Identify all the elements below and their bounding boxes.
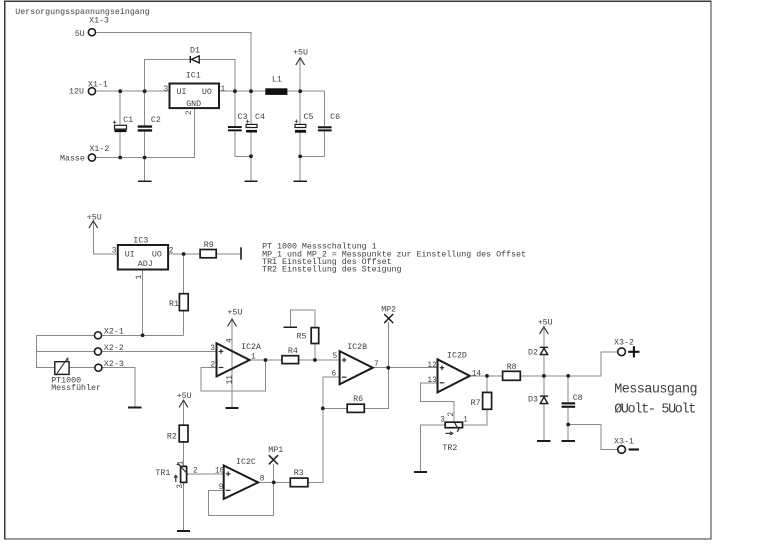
svg-text:R3: R3	[294, 469, 304, 478]
svg-text:1: 1	[251, 353, 256, 361]
svg-text:2: 2	[193, 468, 198, 476]
svg-text:C5: C5	[304, 113, 314, 122]
svg-text:C6: C6	[330, 113, 340, 122]
svg-text:Messausgang: Messausgang	[614, 382, 697, 397]
svg-text:2: 2	[169, 247, 174, 255]
svg-text:ØUolt- 5Uolt: ØUolt- 5Uolt	[614, 403, 695, 418]
svg-text:UI: UI	[177, 88, 187, 97]
svg-text:IC2D: IC2D	[447, 351, 467, 360]
svg-text:3: 3	[164, 86, 169, 94]
svg-text:C1: C1	[123, 116, 133, 125]
svg-text:7: 7	[374, 361, 379, 369]
svg-text:+5U: +5U	[87, 213, 102, 222]
svg-text:C4: C4	[255, 113, 265, 122]
svg-text:C8: C8	[573, 394, 583, 403]
svg-text:TR1: TR1	[155, 469, 170, 478]
svg-text:2: 2	[448, 412, 456, 417]
svg-text:R6: R6	[353, 395, 363, 404]
svg-text:11: 11	[227, 375, 235, 385]
svg-text:UO: UO	[202, 88, 212, 97]
svg-text:X3-1: X3-1	[614, 438, 634, 447]
svg-text:+5U: +5U	[293, 49, 308, 58]
svg-text:13: 13	[427, 377, 437, 385]
svg-text:R2: R2	[167, 432, 177, 441]
svg-text:Messfühler: Messfühler	[51, 383, 101, 393]
svg-text:X2-1: X2-1	[104, 328, 124, 337]
svg-text:5U: 5U	[75, 30, 85, 39]
svg-text:R8: R8	[507, 363, 517, 372]
svg-text:Uersorgungsspannungseingang: Uersorgungsspannungseingang	[15, 7, 149, 17]
svg-text:GND: GND	[186, 100, 201, 109]
svg-text:X2-2: X2-2	[104, 344, 124, 353]
svg-text:3: 3	[112, 247, 117, 255]
svg-text:X3-2: X3-2	[614, 338, 634, 347]
svg-text:R9: R9	[204, 241, 214, 250]
svg-text:12U: 12U	[69, 87, 84, 96]
svg-text:+5U: +5U	[177, 392, 192, 401]
svg-text:2: 2	[186, 110, 194, 115]
svg-text:IC3: IC3	[133, 236, 148, 245]
svg-text:X1-1: X1-1	[88, 81, 108, 90]
svg-text:D3: D3	[528, 396, 538, 405]
svg-text:ADJ: ADJ	[138, 260, 153, 269]
svg-text:4: 4	[227, 338, 235, 343]
svg-text:3: 3	[210, 345, 215, 353]
svg-text:UO: UO	[152, 250, 162, 259]
svg-text:1: 1	[463, 417, 468, 425]
svg-text:6: 6	[332, 371, 337, 379]
svg-text:C3: C3	[238, 113, 248, 122]
svg-text:R7: R7	[471, 399, 481, 408]
svg-text:Masse: Masse	[60, 155, 85, 164]
svg-text:TR2: TR2	[442, 444, 457, 453]
svg-text:8: 8	[260, 476, 265, 484]
svg-text:X1-2: X1-2	[89, 145, 109, 154]
svg-text:9: 9	[219, 484, 224, 492]
svg-text:R1: R1	[169, 300, 179, 309]
svg-text:1: 1	[136, 274, 144, 279]
svg-text:R4: R4	[288, 347, 298, 356]
svg-text:D2: D2	[528, 349, 538, 358]
svg-text:1: 1	[178, 460, 186, 465]
svg-text:3: 3	[177, 484, 185, 489]
svg-text:L1: L1	[272, 76, 282, 85]
svg-text:+5U: +5U	[538, 319, 553, 328]
svg-text:IC2A: IC2A	[241, 343, 261, 352]
svg-text:IC1: IC1	[186, 71, 201, 80]
svg-text:X1-3: X1-3	[89, 17, 109, 26]
svg-text:MP1: MP1	[268, 446, 283, 455]
svg-text:10: 10	[215, 468, 225, 476]
svg-text:C2: C2	[151, 116, 161, 125]
svg-text:14: 14	[472, 370, 482, 378]
svg-text:MP2: MP2	[381, 305, 396, 314]
svg-text:UI: UI	[125, 250, 135, 259]
svg-text:IC2B: IC2B	[347, 343, 367, 352]
svg-text:X2-3: X2-3	[104, 360, 124, 369]
svg-text:3: 3	[440, 417, 445, 425]
svg-text:IC2C: IC2C	[236, 458, 256, 467]
svg-text:12: 12	[427, 362, 437, 370]
svg-text:D1: D1	[190, 47, 200, 56]
svg-text:5: 5	[333, 353, 338, 361]
svg-text:1: 1	[221, 86, 226, 94]
svg-text:2: 2	[211, 362, 216, 370]
svg-text:+5U: +5U	[227, 308, 242, 317]
svg-text:TR2 Einstellung des Steigung: TR2 Einstellung des Steigung	[262, 265, 401, 275]
svg-text:R5: R5	[297, 332, 307, 341]
